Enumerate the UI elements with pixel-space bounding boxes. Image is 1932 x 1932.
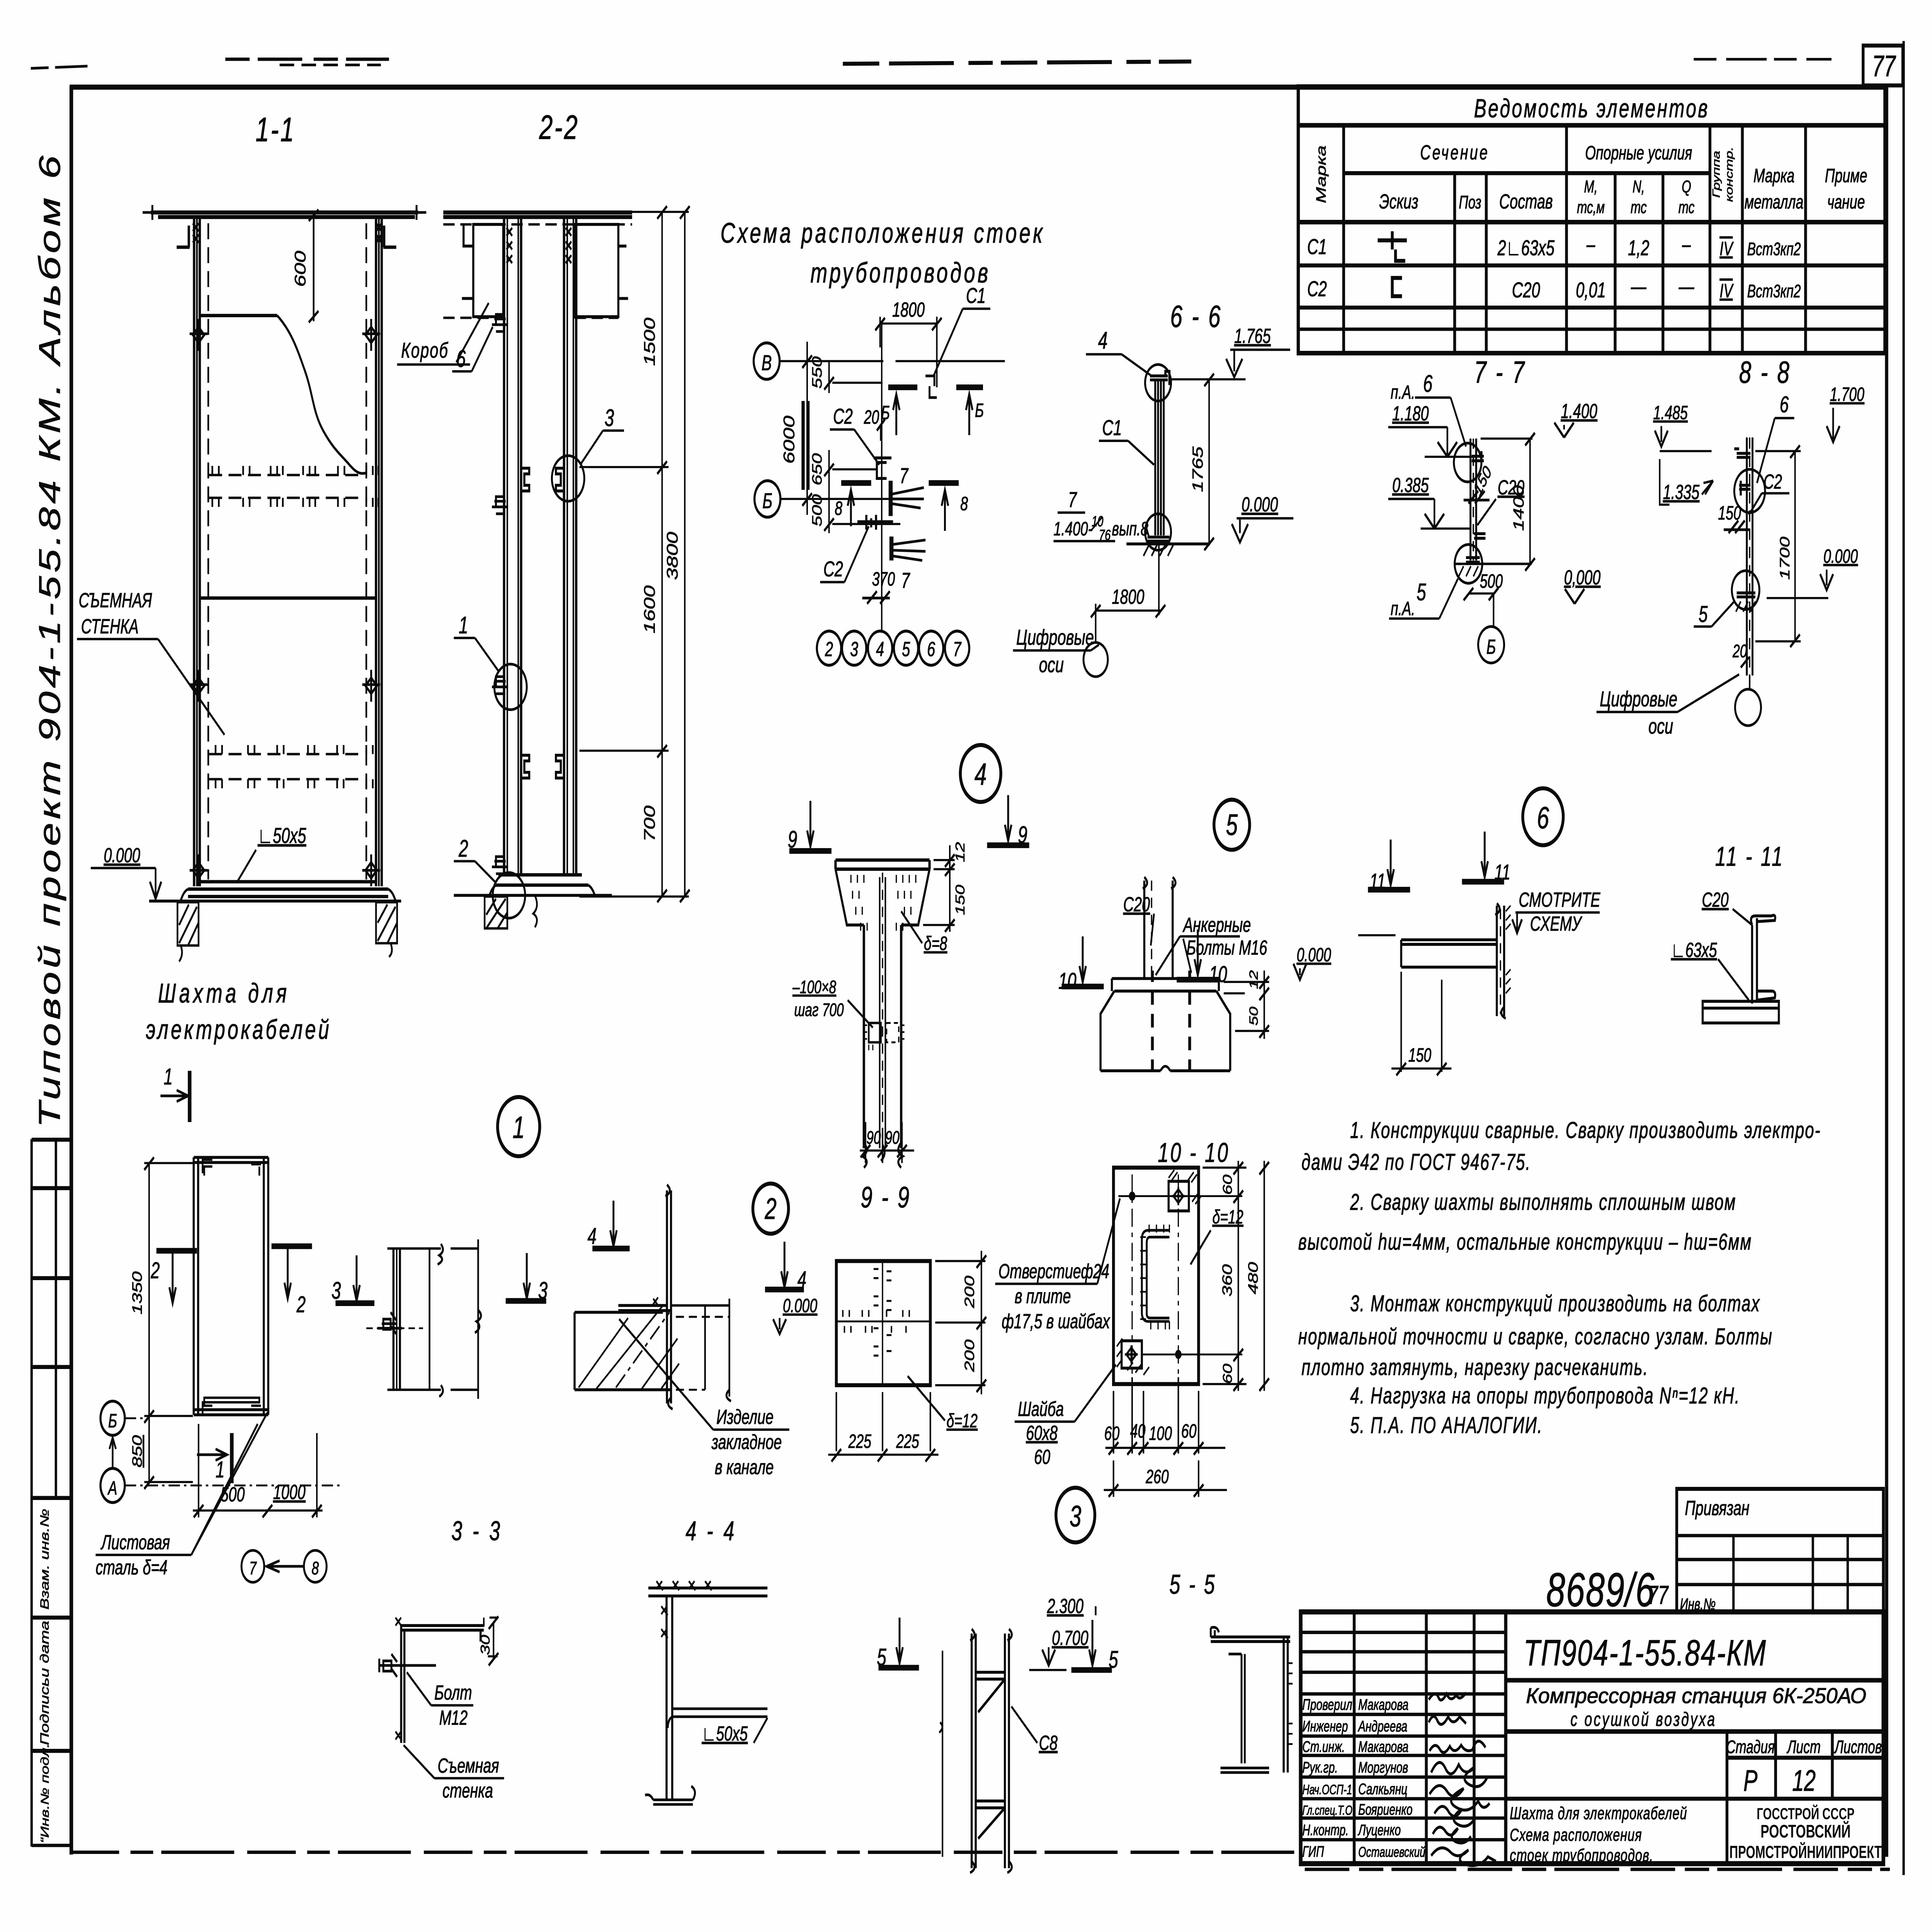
svg-text:Компрессорная станция 6К-250АО: Компрессорная станция 6К-250АО bbox=[1526, 1684, 1866, 1708]
svg-text:δ=12: δ=12 bbox=[947, 1410, 978, 1432]
svg-text:Осташевский: Осташевский bbox=[1358, 1844, 1425, 1860]
svg-text:1.765: 1.765 bbox=[1234, 324, 1271, 347]
svg-text:Б: Б bbox=[762, 489, 772, 513]
svg-text:360: 360 bbox=[1220, 1264, 1235, 1297]
svg-text:8: 8 bbox=[835, 498, 842, 519]
svg-text:Ведомость элементов: Ведомость элементов bbox=[1474, 94, 1709, 123]
svg-text:Макарова: Макарова bbox=[1358, 1739, 1408, 1756]
svg-text:76: 76 bbox=[1099, 527, 1111, 544]
svg-text:4. Нагрузка на опоры трубоп: 4. Нагрузка на опоры трубопровода Nⁿ=12 … bbox=[1350, 1383, 1740, 1408]
svg-text:Схема расположения: Схема расположения bbox=[1510, 1825, 1642, 1845]
svg-text:1.335: 1.335 bbox=[1663, 480, 1700, 503]
svg-text:РОСТОВСКИЙ: РОСТОВСКИЙ bbox=[1760, 1821, 1850, 1842]
svg-text:8 - 8: 8 - 8 bbox=[1739, 355, 1791, 389]
svg-text:0.385: 0.385 bbox=[1392, 473, 1429, 497]
svg-text:Листов: Листов bbox=[1834, 1737, 1882, 1757]
svg-text:ГИП: ГИП bbox=[1302, 1844, 1324, 1861]
svg-text:10: 10 bbox=[1058, 968, 1077, 994]
svg-text:50: 50 bbox=[1247, 1006, 1260, 1026]
svg-text:6: 6 bbox=[927, 638, 935, 661]
svg-text:ГОССТРОЙ СССР: ГОССТРОЙ СССР bbox=[1757, 1805, 1854, 1823]
svg-text:2. Сварку шахты выполнять: 2. Сварку шахты выполнять сплошным швом bbox=[1350, 1189, 1736, 1215]
svg-text:–: – bbox=[1682, 233, 1691, 257]
svg-text:Вст3кп2: Вст3кп2 bbox=[1747, 239, 1801, 259]
svg-text:1350: 1350 bbox=[130, 1271, 145, 1314]
svg-text:6: 6 bbox=[456, 345, 466, 372]
svg-text:1000: 1000 bbox=[273, 1480, 306, 1503]
svg-text:1800: 1800 bbox=[892, 298, 925, 321]
svg-text:8689/6: 8689/6 bbox=[1546, 1563, 1655, 1616]
svg-text:δ=12: δ=12 bbox=[1213, 1206, 1243, 1228]
svg-text:1: 1 bbox=[164, 1064, 173, 1090]
svg-text:—: — bbox=[1679, 275, 1694, 299]
svg-text:2-2: 2-2 bbox=[539, 109, 579, 146]
svg-text:Шахта для: Шахта для bbox=[158, 978, 290, 1009]
svg-text:Стадия: Стадия bbox=[1726, 1737, 1775, 1757]
svg-text:7: 7 bbox=[249, 1558, 257, 1578]
svg-text:Марка: Марка bbox=[1753, 165, 1794, 187]
svg-text:12: 12 bbox=[1792, 1764, 1816, 1797]
svg-text:0.700: 0.700 bbox=[1052, 1626, 1088, 1650]
svg-text:δ=8: δ=8 bbox=[924, 933, 947, 954]
svg-text:0.000: 0.000 bbox=[1823, 546, 1858, 567]
svg-text:СХЕМУ: СХЕМУ bbox=[1530, 912, 1583, 935]
svg-text:90: 90 bbox=[866, 1127, 881, 1148]
svg-text:5: 5 bbox=[1226, 809, 1238, 842]
svg-text:Поз: Поз bbox=[1459, 192, 1481, 213]
svg-text:5 - 5: 5 - 5 bbox=[1169, 1569, 1216, 1600]
svg-text:12: 12 bbox=[1247, 970, 1260, 989]
svg-text:Б: Б bbox=[975, 400, 984, 421]
svg-text:Н.контр.: Н.контр. bbox=[1302, 1822, 1349, 1839]
svg-text:500: 500 bbox=[1480, 571, 1503, 592]
svg-text:Макарова: Макарова bbox=[1358, 1697, 1408, 1714]
svg-text:констр.: констр. bbox=[1723, 147, 1735, 202]
svg-text:60: 60 bbox=[1220, 1364, 1235, 1384]
svg-text:Гл.спец.Т.О.: Гл.спец.Т.О. bbox=[1302, 1803, 1355, 1818]
svg-text:в канале: в канале bbox=[715, 1455, 774, 1478]
svg-text:п.А.: п.А. bbox=[1391, 382, 1415, 403]
svg-text:М,: М, bbox=[1584, 177, 1598, 197]
svg-text:60: 60 bbox=[1181, 1421, 1197, 1442]
svg-text:Q: Q bbox=[1682, 177, 1691, 197]
svg-text:12: 12 bbox=[952, 842, 967, 862]
svg-text:0.000: 0.000 bbox=[104, 844, 140, 867]
svg-text:225: 225 bbox=[896, 1431, 919, 1452]
svg-text:3. Монтаж конструкций произв: 3. Монтаж конструкций производить на бол… bbox=[1350, 1291, 1760, 1316]
svg-text:150: 150 bbox=[952, 884, 967, 915]
svg-text:Инженер: Инженер bbox=[1302, 1718, 1348, 1735]
svg-text:90: 90 bbox=[885, 1127, 900, 1148]
svg-text:2∟63х5: 2∟63х5 bbox=[1497, 236, 1555, 260]
svg-text:20: 20 bbox=[1732, 641, 1747, 661]
svg-text:тс,м: тс,м bbox=[1577, 198, 1605, 217]
svg-text:1600: 1600 bbox=[641, 585, 658, 634]
svg-text:стенка: стенка bbox=[442, 1779, 493, 1802]
svg-text:ПРОМСТРОЙНИИПРОЕКТ: ПРОМСТРОЙНИИПРОЕКТ bbox=[1730, 1842, 1882, 1862]
svg-text:Отверстиеф24: Отверстиеф24 bbox=[998, 1259, 1109, 1282]
svg-text:1.180: 1.180 bbox=[1392, 401, 1429, 425]
svg-text:высотой hш=4мм, остальные ко: высотой hш=4мм, остальные конструкции – … bbox=[1298, 1229, 1752, 1255]
svg-text:6: 6 bbox=[1423, 371, 1433, 397]
svg-text:стоек трубопроводов.: стоек трубопроводов. bbox=[1510, 1846, 1653, 1866]
svg-text:1,2: 1,2 bbox=[1628, 236, 1649, 260]
svg-text:С8: С8 bbox=[1039, 1731, 1058, 1754]
svg-text:оси: оси bbox=[1039, 653, 1064, 677]
svg-text:СМОТРИТЕ: СМОТРИТЕ bbox=[1519, 888, 1600, 911]
svg-text:9 - 9: 9 - 9 bbox=[861, 1181, 911, 1214]
svg-text:∟63х5: ∟63х5 bbox=[1671, 938, 1717, 961]
svg-text:СТЕНКА: СТЕНКА bbox=[81, 615, 139, 638]
svg-text:Шайба: Шайба bbox=[1018, 1397, 1064, 1420]
svg-text:Марка: Марка bbox=[1314, 145, 1329, 203]
svg-text:20: 20 bbox=[864, 407, 879, 428]
svg-text:нормальной точности и сварке,: нормальной точности и сварке, согласно у… bbox=[1298, 1324, 1773, 1349]
svg-text:С1: С1 bbox=[1307, 235, 1327, 259]
svg-text:С1: С1 bbox=[1102, 416, 1122, 440]
svg-text:Р: Р bbox=[1743, 1764, 1757, 1797]
svg-text:3: 3 bbox=[605, 405, 614, 431]
svg-text:200: 200 bbox=[962, 1339, 977, 1372]
svg-text:40: 40 bbox=[1130, 1421, 1146, 1442]
svg-text:1: 1 bbox=[513, 1110, 525, 1145]
svg-text:Салкьянц: Салкьянц bbox=[1358, 1781, 1407, 1798]
svg-text:600: 600 bbox=[292, 251, 309, 287]
svg-text:п.А.: п.А. bbox=[1391, 598, 1415, 619]
svg-text:2: 2 bbox=[825, 638, 833, 661]
svg-text:В: В bbox=[762, 351, 772, 375]
svg-text:10 - 10: 10 - 10 bbox=[1158, 1138, 1230, 1168]
svg-text:Бояриенко: Бояриенко bbox=[1358, 1801, 1413, 1818]
svg-text:в плите: в плите bbox=[1015, 1284, 1071, 1308]
svg-text:А: А bbox=[107, 1478, 117, 1499]
svg-text:Рук.гр.: Рук.гр. bbox=[1302, 1759, 1338, 1776]
svg-text:0.000: 0.000 bbox=[783, 1295, 817, 1316]
svg-text:8: 8 bbox=[960, 493, 968, 515]
svg-text:С2: С2 bbox=[823, 557, 843, 581]
svg-text:∟50х5: ∟50х5 bbox=[702, 1722, 748, 1745]
svg-text:1700: 1700 bbox=[1777, 537, 1793, 580]
svg-text:1800: 1800 bbox=[1112, 585, 1144, 608]
svg-text:1: 1 bbox=[459, 612, 468, 639]
svg-text:2.300: 2.300 bbox=[1047, 1594, 1084, 1617]
svg-text:60: 60 bbox=[1220, 1175, 1235, 1195]
svg-text:100: 100 bbox=[1149, 1423, 1172, 1444]
svg-text:6 - 6: 6 - 6 bbox=[1170, 299, 1222, 334]
svg-text:Анкерные: Анкерные bbox=[1182, 913, 1251, 936]
svg-text:С2: С2 bbox=[1307, 277, 1327, 301]
svg-text:2: 2 bbox=[296, 1292, 306, 1317]
svg-text:∟50х5: ∟50х5 bbox=[258, 824, 306, 848]
svg-text:4: 4 bbox=[975, 757, 986, 792]
svg-text:30: 30 bbox=[478, 1635, 492, 1655]
svg-text:2: 2 bbox=[150, 1258, 160, 1283]
svg-text:Изделие: Изделие bbox=[716, 1405, 774, 1429]
svg-text:Болт: Болт bbox=[434, 1681, 472, 1704]
svg-text:сталь δ=4: сталь δ=4 bbox=[95, 1556, 167, 1579]
svg-text:Болты М16: Болты М16 bbox=[1186, 936, 1267, 959]
svg-text:4: 4 bbox=[588, 1223, 597, 1249]
svg-text:0.000: 0.000 bbox=[1297, 944, 1331, 966]
svg-text:С2: С2 bbox=[833, 405, 853, 429]
svg-text:Нач.ОСП-1: Нач.ОСП-1 bbox=[1302, 1782, 1352, 1797]
svg-text:0.000: 0.000 bbox=[1242, 493, 1278, 516]
svg-text:тс: тс bbox=[1679, 198, 1695, 217]
svg-text:4: 4 bbox=[1098, 327, 1108, 354]
svg-text:77: 77 bbox=[1648, 1581, 1669, 1610]
svg-text:С20: С20 bbox=[1702, 888, 1729, 911]
svg-text:6: 6 bbox=[1780, 392, 1789, 417]
svg-text:2: 2 bbox=[765, 1192, 777, 1225]
svg-text:1-1: 1-1 bbox=[255, 111, 296, 149]
svg-text:с осушкой воздуха: с осушкой воздуха bbox=[1570, 1709, 1716, 1730]
svg-text:1.485: 1.485 bbox=[1653, 402, 1688, 423]
svg-text:3: 3 bbox=[850, 638, 858, 661]
svg-text:2: 2 bbox=[458, 835, 468, 862]
svg-text:Съемная: Съемная bbox=[438, 1754, 499, 1777]
svg-text:650: 650 bbox=[810, 453, 825, 486]
svg-text:0,000: 0,000 bbox=[1564, 566, 1601, 589]
svg-text:шаг 700: шаг 700 bbox=[794, 1000, 844, 1020]
svg-text:ф17,5 в шайбах: ф17,5 в шайбах bbox=[1002, 1310, 1111, 1333]
svg-text:7: 7 bbox=[953, 638, 962, 661]
svg-text:Листовая: Листовая bbox=[100, 1531, 170, 1554]
svg-text:Опорные усилия: Опорные усилия bbox=[1585, 143, 1692, 164]
svg-text:77: 77 bbox=[1872, 50, 1896, 83]
svg-text:оси: оси bbox=[1648, 714, 1673, 738]
svg-text:6: 6 bbox=[1537, 800, 1549, 835]
svg-text:закладное: закладное bbox=[711, 1430, 782, 1454]
svg-text:60х8: 60х8 bbox=[1026, 1421, 1058, 1444]
svg-text:Короб: Короб bbox=[401, 338, 449, 362]
svg-text:5: 5 bbox=[902, 638, 910, 661]
svg-text:1.400-: 1.400- bbox=[1054, 519, 1093, 540]
svg-text:1500: 1500 bbox=[641, 318, 658, 366]
svg-text:7: 7 bbox=[901, 569, 910, 593]
svg-text:плотно затянуть, нарезку ра: плотно затянуть, нарезку расчеканить. bbox=[1301, 1354, 1648, 1380]
svg-text:чание: чание bbox=[1827, 192, 1865, 213]
svg-text:вып.8: вып.8 bbox=[1112, 519, 1148, 540]
svg-text:электрокабелей: электрокабелей bbox=[146, 1014, 332, 1045]
svg-text:550: 550 bbox=[810, 356, 825, 389]
svg-text:5. П.А. ПО АНАЛОГИИ.: 5. П.А. ПО АНАЛОГИИ. bbox=[1350, 1413, 1543, 1438]
svg-text:4 - 4: 4 - 4 bbox=[685, 1515, 736, 1546]
svg-text:370: 370 bbox=[872, 569, 895, 590]
svg-text:Лист: Лист bbox=[1786, 1737, 1821, 1757]
svg-text:7 - 7: 7 - 7 bbox=[1474, 355, 1526, 389]
svg-text:тс: тс bbox=[1631, 198, 1647, 217]
svg-text:Эскиз: Эскиз bbox=[1379, 190, 1418, 213]
svg-text:Группа: Группа bbox=[1711, 151, 1722, 198]
svg-text:С20: С20 bbox=[1123, 893, 1150, 916]
svg-text:1.400: 1.400 bbox=[1561, 400, 1597, 423]
svg-text:Луценко: Луценко bbox=[1357, 1822, 1401, 1839]
svg-text:–100×8: –100×8 bbox=[792, 977, 836, 997]
svg-text:7: 7 bbox=[1068, 488, 1077, 512]
svg-text:трубопроводов: трубопроводов bbox=[810, 257, 990, 289]
svg-text:1765: 1765 bbox=[1189, 446, 1206, 492]
svg-text:Шахта для электрокабелей: Шахта для электрокабелей bbox=[1510, 1804, 1687, 1823]
svg-text:150: 150 bbox=[1408, 1045, 1431, 1066]
svg-text:Взам. инв.№: Взам. инв.№ bbox=[38, 1509, 51, 1610]
svg-text:700: 700 bbox=[641, 806, 658, 842]
svg-text:Вст3кп2: Вст3кп2 bbox=[1747, 281, 1801, 301]
svg-text:850: 850 bbox=[130, 1435, 145, 1468]
svg-text:60: 60 bbox=[1104, 1423, 1120, 1444]
svg-text:С1: С1 bbox=[966, 284, 986, 308]
svg-text:60: 60 bbox=[1034, 1445, 1050, 1468]
svg-text:Типовой проект 904-1-55.84 К: Типовой проект 904-1-55.84 КМ. Альбом 6 bbox=[33, 152, 67, 1128]
svg-text:225: 225 bbox=[848, 1431, 872, 1452]
svg-text:8: 8 bbox=[312, 1558, 319, 1578]
svg-text:1.700: 1.700 bbox=[1830, 384, 1864, 405]
svg-text:Андреева: Андреева bbox=[1357, 1718, 1407, 1735]
svg-text:дами Э42 по ГОСТ 9467-75.: дами Э42 по ГОСТ 9467-75. bbox=[1301, 1150, 1531, 1175]
svg-text:IV: IV bbox=[1719, 238, 1734, 260]
svg-text:Б: Б bbox=[108, 1410, 117, 1432]
svg-text:Привязан: Привязан bbox=[1685, 1497, 1749, 1520]
svg-text:Подписьи дата: Подписьи дата bbox=[38, 1621, 51, 1745]
svg-text:260: 260 bbox=[1145, 1466, 1168, 1488]
svg-text:Моргунов: Моргунов bbox=[1358, 1759, 1408, 1776]
svg-text:500: 500 bbox=[810, 494, 825, 527]
svg-text:Проверил: Проверил bbox=[1302, 1697, 1352, 1714]
svg-text:6000: 6000 bbox=[781, 416, 798, 464]
svg-text:СЪЕМНАЯ: СЪЕМНАЯ bbox=[78, 588, 152, 612]
svg-text:–: – bbox=[1586, 233, 1595, 257]
svg-text:5: 5 bbox=[1417, 579, 1426, 605]
svg-text:7: 7 bbox=[900, 464, 909, 488]
svg-text:1. Конструкции сварные. Сварку: 1. Конструкции сварные. Сварку производи… bbox=[1350, 1117, 1821, 1143]
svg-text:480: 480 bbox=[1246, 1262, 1261, 1294]
svg-text:—: — bbox=[1631, 275, 1646, 299]
svg-text:IV: IV bbox=[1719, 281, 1734, 302]
svg-text:Состав: Состав bbox=[1499, 190, 1553, 213]
svg-text:Приме: Приме bbox=[1825, 165, 1867, 187]
svg-text:3: 3 bbox=[1070, 1500, 1081, 1533]
svg-text:0,01: 0,01 bbox=[1576, 278, 1606, 302]
svg-text:“Инв.№ подл.: “Инв.№ подл. bbox=[39, 1743, 51, 1843]
svg-text:М12: М12 bbox=[439, 1706, 468, 1729]
svg-text:1400: 1400 bbox=[1510, 485, 1527, 531]
svg-text:Сечение: Сечение bbox=[1420, 141, 1489, 164]
svg-text:Цифровые: Цифровые bbox=[1016, 626, 1094, 650]
svg-text:N,: N, bbox=[1633, 177, 1645, 197]
svg-text:11 - 11: 11 - 11 bbox=[1715, 841, 1784, 872]
svg-text:Б: Б bbox=[1486, 635, 1496, 658]
svg-text:Ст.инж.: Ст.инж. bbox=[1302, 1739, 1345, 1756]
svg-text:3: 3 bbox=[332, 1277, 341, 1304]
svg-text:200: 200 bbox=[962, 1276, 977, 1308]
svg-text:С2: С2 bbox=[1764, 470, 1782, 493]
svg-text:4: 4 bbox=[876, 638, 884, 661]
svg-text:металла: металла bbox=[1745, 192, 1804, 213]
svg-text:3800: 3800 bbox=[664, 532, 681, 580]
svg-text:ТП904-1-55.84-КМ: ТП904-1-55.84-КМ bbox=[1524, 1633, 1767, 1673]
svg-text:Схема расположения стоек: Схема расположения стоек bbox=[721, 217, 1045, 249]
svg-text:3 - 3: 3 - 3 bbox=[451, 1515, 502, 1546]
svg-text:С20: С20 bbox=[1512, 278, 1540, 302]
svg-text:Цифровые: Цифровые bbox=[1600, 687, 1677, 711]
svg-text:5: 5 bbox=[1699, 602, 1708, 627]
